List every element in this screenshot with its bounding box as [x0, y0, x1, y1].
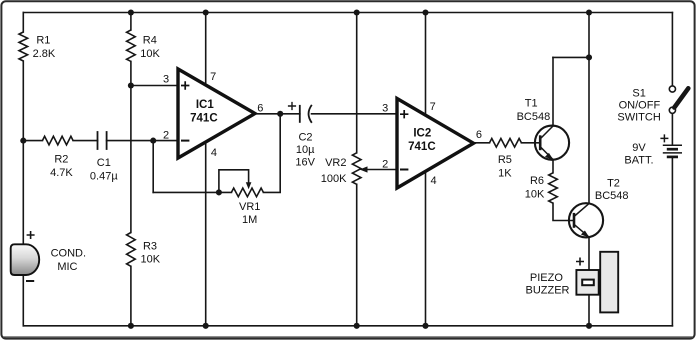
- svg-text:741C: 741C: [190, 112, 218, 124]
- wire VR1 wiper loop: [219, 170, 249, 193]
- wire T1 collector horizontal tie: [553, 56, 589, 58]
- svg-text:100K: 100K: [321, 173, 347, 185]
- svg-text:T1: T1: [525, 98, 538, 110]
- svg-text:4.7K: 4.7K: [50, 167, 73, 179]
- capacitor C1: [98, 131, 107, 150]
- node: IC1 pin2 / feedback: [150, 138, 156, 144]
- piezo terminal slot: [582, 280, 594, 286]
- wire IC2 pin7 (top rail to triangle): [425, 13, 427, 121]
- IC1 plus input marker: [181, 81, 189, 89]
- svg-text:R4: R4: [143, 34, 157, 46]
- node: left rail / R2 row: [20, 138, 26, 144]
- switch S1 lever: [674, 88, 688, 107]
- node: bottom rail / R3: [128, 323, 134, 329]
- svg-text:2: 2: [163, 130, 169, 142]
- svg-text:VR1: VR1: [239, 201, 260, 213]
- node: bottom rail / IC2 pin4: [422, 323, 428, 329]
- wire R5 to T1 base: [521, 142, 540, 144]
- svg-text:6: 6: [257, 102, 263, 114]
- piezo plus sign: [576, 258, 584, 266]
- svg-text:3: 3: [163, 73, 169, 85]
- op-amp IC1: [178, 69, 255, 158]
- resistor R4: [127, 30, 136, 61]
- svg-text:6: 6: [476, 129, 482, 141]
- svg-text:2.8K: 2.8K: [33, 48, 56, 60]
- node: bottom rail / IC1 pin4: [203, 323, 209, 329]
- wire left rail top segment (top rail to R1): [22, 13, 24, 33]
- node: IC1 pin3 / R4-R3 rail: [128, 82, 134, 88]
- wire R6 to T2 base: [553, 203, 574, 220]
- svg-text:BC548: BC548: [595, 190, 629, 202]
- node: bottom rail / VR2: [354, 323, 360, 329]
- resistor R1: [19, 32, 28, 61]
- svg-text:VR2: VR2: [325, 157, 346, 169]
- node: top rail / IC2 pin7: [422, 9, 428, 15]
- wire T2 emitter to piezo and bottom rail: [588, 237, 590, 326]
- svg-text:0.47µ: 0.47µ: [90, 171, 118, 183]
- wire VR1 right end to pin6 node riser: [263, 114, 280, 193]
- wire C1 right plate to IC1 pin2: [107, 140, 179, 142]
- node: top rail / VR2: [354, 9, 360, 15]
- svg-text:BC548: BC548: [517, 111, 551, 123]
- node: IC1 pin6 / C2 / feedback riser: [277, 111, 283, 117]
- svg-text:ON/OFF: ON/OFF: [619, 99, 661, 111]
- svg-text:9V: 9V: [632, 142, 646, 154]
- IC2 plus input marker: [400, 110, 408, 118]
- wire feedback: pin2 node down: [152, 141, 154, 193]
- capacitor C2 (polarized): [300, 105, 312, 123]
- svg-text:MIC: MIC: [57, 261, 77, 273]
- svg-text:R5: R5: [498, 154, 512, 166]
- condenser microphone body: [11, 244, 40, 275]
- IC2 minus input marker: [400, 169, 408, 171]
- svg-text:1M: 1M: [242, 214, 257, 226]
- piezo buzzer terminal block: [576, 270, 598, 295]
- node: top rail / IC1 pin7: [203, 9, 209, 15]
- wire right rail: top rail to switch: [671, 13, 673, 86]
- svg-text:C2: C2: [298, 131, 312, 143]
- svg-text:3: 3: [382, 103, 388, 115]
- node: top rail / R4: [128, 9, 134, 15]
- svg-text:BATT.: BATT.: [624, 154, 653, 166]
- potentiometer VR1: [231, 188, 263, 197]
- wire IC1 pin6 output to C2: [255, 113, 300, 115]
- battery plus sign: [660, 134, 668, 142]
- frame bottom thick edge (decorative): [3, 336, 693, 338]
- svg-text:2: 2: [382, 158, 388, 170]
- svg-text:COND.: COND.: [51, 248, 86, 260]
- wire IC1 pin3 input: [131, 85, 179, 87]
- svg-text:16V: 16V: [295, 157, 315, 169]
- wire VR2 wiper to IC2 pin2: [365, 169, 398, 171]
- wire T1 collector riser: [552, 57, 554, 125]
- mic minus sign: [26, 280, 34, 282]
- svg-text:R3: R3: [143, 241, 157, 253]
- node: T1 collector / supply drop: [586, 54, 592, 60]
- svg-text:10µ: 10µ: [296, 144, 315, 156]
- wire top supply rail: [23, 12, 672, 14]
- wire IC1 pin7 (top rail to triangle): [205, 13, 207, 91]
- wire left rail (mic bottom to bottom rail): [22, 275, 24, 326]
- svg-text:R6: R6: [530, 175, 544, 187]
- VR1 wiper arrowhead: [246, 182, 252, 189]
- wire IC1 pin4 (triangle to bottom rail): [205, 140, 207, 326]
- resistor R6: [549, 173, 558, 203]
- svg-text:1K: 1K: [498, 168, 512, 180]
- wire T1 emitter to R6: [552, 160, 554, 173]
- svg-text:IC1: IC1: [196, 99, 215, 111]
- IC1 minus input marker: [181, 140, 189, 142]
- resistor R5: [490, 139, 522, 148]
- wire left rail (R1 bottom to mic top): [22, 61, 24, 244]
- wire bottom ground rail: [23, 325, 672, 327]
- svg-text:PIEZO: PIEZO: [530, 272, 563, 284]
- transistor T1: [535, 126, 569, 161]
- wire feedback horizontal to VR1: [153, 191, 231, 193]
- wire C2 to IC2 pin3: [312, 113, 399, 115]
- node: top rail / T2 collector drop: [586, 9, 592, 15]
- wire switch to battery: [671, 113, 673, 145]
- svg-text:BUZZER: BUZZER: [526, 285, 570, 297]
- wire R4/R3 rail middle (R4 bottom to R3 top, through pin3 node): [130, 61, 132, 232]
- op-amp IC2: [397, 99, 474, 189]
- wire VR2 rail top (top rail to VR2): [356, 13, 358, 153]
- wire R4/R3 rail bottom (R3 bottom to bottom rail): [130, 266, 132, 326]
- wire VR2 rail bottom (VR2 to bottom rail): [356, 184, 358, 325]
- C2 plus sign: [288, 102, 296, 110]
- node: VR1 wiper tie: [216, 189, 222, 195]
- battery B1 cells: [663, 145, 682, 157]
- svg-text:4: 4: [211, 147, 217, 159]
- wire IC2 pin4 (triangle to bottom rail): [425, 170, 427, 326]
- svg-text:10K: 10K: [141, 254, 161, 266]
- transistor T2: [569, 203, 603, 238]
- VR2 wiper arrowhead: [360, 166, 368, 172]
- wire battery to bottom rail: [671, 157, 673, 326]
- wire IC2 pin6 output to R5: [473, 142, 489, 144]
- svg-text:7: 7: [430, 101, 436, 113]
- wire supply drop to T2 collector (through tie junction): [588, 13, 590, 204]
- switch S1 contact circles: [669, 86, 675, 92]
- wire R4/R3 rail top (top rail to R4): [130, 13, 132, 31]
- svg-text:7: 7: [210, 71, 216, 83]
- potentiometer VR2: [352, 153, 361, 185]
- svg-text:R1: R1: [36, 34, 50, 46]
- svg-text:4: 4: [431, 175, 437, 187]
- wire R2 to C1 left plate: [73, 140, 97, 142]
- svg-text:S1: S1: [632, 87, 645, 99]
- mic plus sign: [27, 231, 35, 239]
- svg-text:SWITCH: SWITCH: [617, 111, 660, 123]
- resistor R3: [127, 233, 136, 267]
- svg-text:741C: 741C: [408, 141, 436, 153]
- svg-text:10K: 10K: [140, 48, 160, 60]
- svg-text:IC2: IC2: [413, 128, 431, 140]
- svg-text:R2: R2: [54, 154, 68, 166]
- piezo buzzer element body: [600, 252, 618, 313]
- svg-text:10K: 10K: [525, 189, 545, 201]
- svg-text:C1: C1: [97, 157, 111, 169]
- svg-text:T2: T2: [607, 178, 620, 190]
- node: bottom rail / piezo return: [586, 323, 592, 329]
- wire R2 row: left rail to R2: [23, 140, 42, 142]
- resistor R2: [42, 136, 73, 145]
